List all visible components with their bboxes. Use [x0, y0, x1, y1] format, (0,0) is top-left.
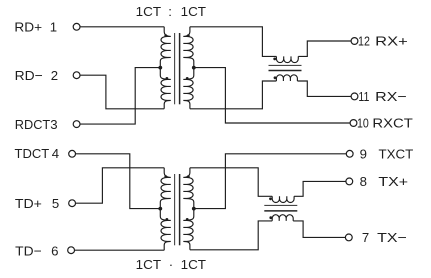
svg-text:RD−: RD−	[15, 68, 43, 83]
junction T1 primary center tap	[158, 66, 162, 70]
svg-text:4: 4	[52, 146, 59, 161]
transformer T1 secondary winding	[183, 27, 194, 109]
transformer T2 primary winding	[160, 168, 171, 250]
svg-text:RX−: RX−	[375, 89, 407, 104]
phase dot choke L1 top	[273, 58, 276, 61]
core T1 left line	[174, 33, 176, 104]
core T1 right line	[179, 33, 181, 104]
svg-text:10: 10	[357, 116, 369, 131]
core choke L2 upper line	[264, 204, 297, 206]
junction T1 secondary center tap	[192, 66, 196, 70]
pin 6 terminal	[68, 247, 75, 254]
svg-text:1CT: 1CT	[136, 257, 161, 272]
svg-text:9: 9	[360, 146, 367, 161]
wire pin1 RD+ to T1 primary top	[80, 26, 164, 28]
phase dot T1 primary lower	[166, 77, 169, 80]
svg-text:RDCT: RDCT	[15, 117, 50, 132]
phase dot choke L2 bottom	[269, 216, 272, 219]
svg-text:1CT: 1CT	[181, 4, 206, 19]
wire T1 secondary center tap to pin10 RXCT	[194, 68, 350, 123]
phase dot choke L1 bottom	[274, 76, 277, 79]
pin 10 terminal	[350, 120, 357, 127]
transformer T2 secondary winding	[183, 168, 194, 250]
wire pin6 TD- to T2 primary bottom	[75, 249, 165, 251]
svg-text:5: 5	[52, 196, 59, 211]
wire pin3 RDCT to T1 primary center tap	[80, 68, 160, 125]
svg-text:2: 2	[51, 68, 58, 83]
wire T2 secondary top to choke L2 top winding	[190, 168, 272, 197]
phase dot T1 secondary lower	[186, 77, 189, 80]
core T2 right line	[179, 174, 181, 245]
svg-text:TX−: TX−	[377, 230, 407, 245]
core T2 left line	[174, 174, 176, 245]
core choke L1 upper line	[269, 64, 302, 66]
junction T2 secondary center tap	[192, 207, 196, 211]
svg-text:6: 6	[51, 243, 58, 258]
svg-text:RXCT: RXCT	[372, 116, 412, 131]
wire pin4 TDCT to T2 primary center tap	[76, 154, 161, 209]
phase dot T2 secondary upper	[187, 175, 190, 178]
pin 7 terminal	[345, 234, 352, 241]
phase dot T1 primary upper	[164, 34, 167, 37]
svg-text:11: 11	[358, 89, 369, 104]
svg-text:1CT: 1CT	[136, 4, 161, 19]
core choke L1 lower line	[269, 70, 302, 72]
wire choke L1 bottom winding to pin11	[297, 81, 351, 96]
core choke L2 lower line	[264, 210, 297, 212]
pin 8 terminal	[346, 178, 353, 185]
choke L2 top winding	[272, 196, 294, 202]
svg-text:TXCT: TXCT	[379, 146, 414, 161]
wire choke L2 bottom winding to pin7	[293, 221, 345, 238]
svg-text:TX+: TX+	[378, 174, 408, 189]
phase dot T2 primary upper	[164, 175, 167, 178]
svg-text::: :	[168, 4, 172, 19]
wire choke L2 top winding to pin8	[294, 181, 346, 196]
svg-text:12: 12	[358, 34, 370, 49]
wire T1 secondary top to choke L1 top winding	[190, 27, 277, 57]
svg-text:1: 1	[50, 20, 57, 35]
pin 4 terminal	[69, 150, 76, 157]
phase dot choke L2 top	[269, 197, 272, 200]
svg-text:TD−: TD−	[15, 243, 42, 258]
phase dot T2 secondary lower	[186, 218, 189, 221]
svg-text:3: 3	[50, 117, 57, 132]
choke L1 top winding	[276, 56, 298, 62]
svg-text:RD+: RD+	[14, 20, 42, 35]
transformer T1 primary winding	[160, 27, 171, 109]
svg-text:8: 8	[360, 174, 367, 189]
pin 9 terminal	[346, 150, 353, 157]
pin 11 terminal	[351, 93, 358, 100]
wire T1 secondary bottom to choke L1 bottom winding	[190, 81, 277, 109]
svg-text:1CT: 1CT	[181, 257, 206, 272]
phase dot T2 primary lower	[166, 218, 169, 221]
wire pin5 TD+ to T2 primary top	[76, 168, 165, 203]
wire choke L1 top winding to pin12	[298, 41, 351, 56]
junction T2 primary center tap	[158, 207, 162, 211]
wire pin2 RD- to T1 primary bottom	[80, 75, 164, 109]
wire T2 secondary bottom to choke L2 bottom winding	[190, 221, 272, 250]
svg-text:RX+: RX+	[375, 34, 408, 49]
pin 12 terminal	[351, 38, 358, 45]
phase dot T1 secondary upper	[187, 34, 190, 37]
svg-text:TDCT: TDCT	[15, 146, 50, 161]
svg-text:7: 7	[362, 230, 369, 245]
pin 3 terminal	[73, 121, 80, 128]
choke L2 bottom winding	[272, 215, 293, 221]
wire T2 secondary center tap to pin9 TXCT	[194, 154, 346, 209]
choke L1 bottom winding	[276, 75, 297, 81]
pin 5 terminal	[69, 200, 76, 207]
pin 2 terminal	[73, 72, 80, 79]
pin 1 terminal	[73, 23, 80, 30]
svg-text:TD+: TD+	[15, 196, 42, 211]
svg-text:·: ·	[169, 257, 173, 272]
